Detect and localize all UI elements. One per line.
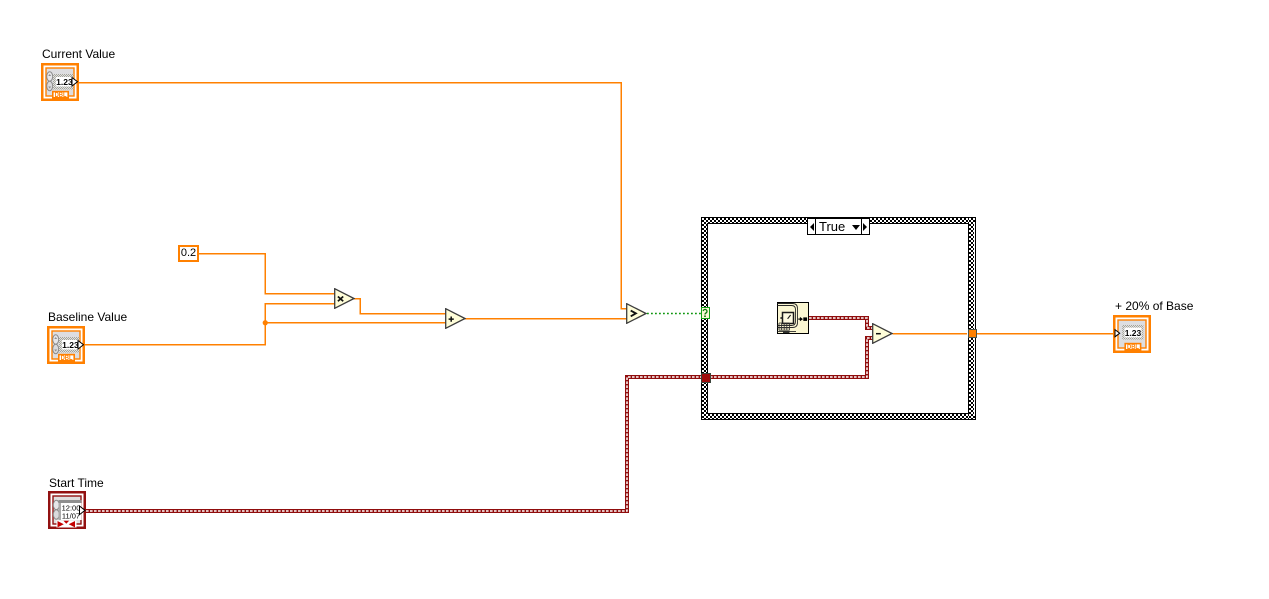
tunnel boolean ? on case left border xyxy=(701,307,710,320)
label Start Time xyxy=(49,477,104,490)
icon Get Date/Time In Seconds xyxy=(777,302,809,334)
case structure border xyxy=(701,217,976,420)
case structure checker band left xyxy=(702,218,707,419)
label Baseline Value xyxy=(48,311,127,324)
wire Subtract output to case tunnel (orange) xyxy=(893,333,968,335)
label Current Value xyxy=(42,48,115,61)
wire 0.2 constant to Multiply top input xyxy=(199,254,335,294)
svg-text:DBL: DBL xyxy=(61,353,73,362)
wire boolean Greater output to case tunnel (green dotted) xyxy=(647,313,701,315)
indicator + 20% of Base (DBL terminal) xyxy=(1113,315,1151,353)
wire Multiply output to Add top input xyxy=(354,299,446,314)
wire Current Value to Greater top input (orange DBL) xyxy=(79,83,627,309)
svg-text:DBL: DBL xyxy=(55,90,67,99)
svg-text:1.23: 1.23 xyxy=(56,77,73,87)
control Start Time (timestamp terminal) xyxy=(48,491,86,529)
case structure checker band right xyxy=(969,218,974,419)
wire Baseline Value riser to Multiply bottom input xyxy=(85,304,335,345)
tunnel timestamp on case left border (solid maroon) xyxy=(701,373,711,383)
wire timestamp tunnel to Subtract bottom input xyxy=(710,338,873,377)
function Subtract xyxy=(872,323,893,344)
label + 20% of Base xyxy=(1115,300,1193,313)
function Add xyxy=(445,308,466,329)
wire timestamp Start Time to case tunnel xyxy=(86,377,702,511)
case structure checker band top xyxy=(702,218,975,223)
control Baseline Value (DBL numeric terminal) xyxy=(47,326,85,364)
wire case tunnel to indicator (orange) xyxy=(976,333,1114,335)
function Greater? xyxy=(626,303,647,324)
function Multiply xyxy=(334,288,355,309)
wire timestamp clock output to Subtract top input xyxy=(809,318,873,328)
constant 0.2 xyxy=(178,245,199,262)
tunnel DBL output on case right border (solid orange) xyxy=(968,329,978,338)
junction dot on Baseline wire xyxy=(263,320,268,325)
svg-text:1.23: 1.23 xyxy=(1125,328,1142,338)
control Current Value (DBL numeric terminal) xyxy=(41,63,79,101)
svg-text:11/07: 11/07 xyxy=(62,511,80,520)
case structure checker band bottom xyxy=(702,414,975,419)
svg-text:DBL: DBL xyxy=(1127,342,1139,351)
svg-text:1.23: 1.23 xyxy=(62,340,79,350)
wire Add output to Greater bottom input xyxy=(465,318,627,320)
wire Baseline branch to Add bottom input xyxy=(265,322,445,324)
case structure inner frame xyxy=(707,223,969,414)
case selector label True xyxy=(807,218,870,235)
